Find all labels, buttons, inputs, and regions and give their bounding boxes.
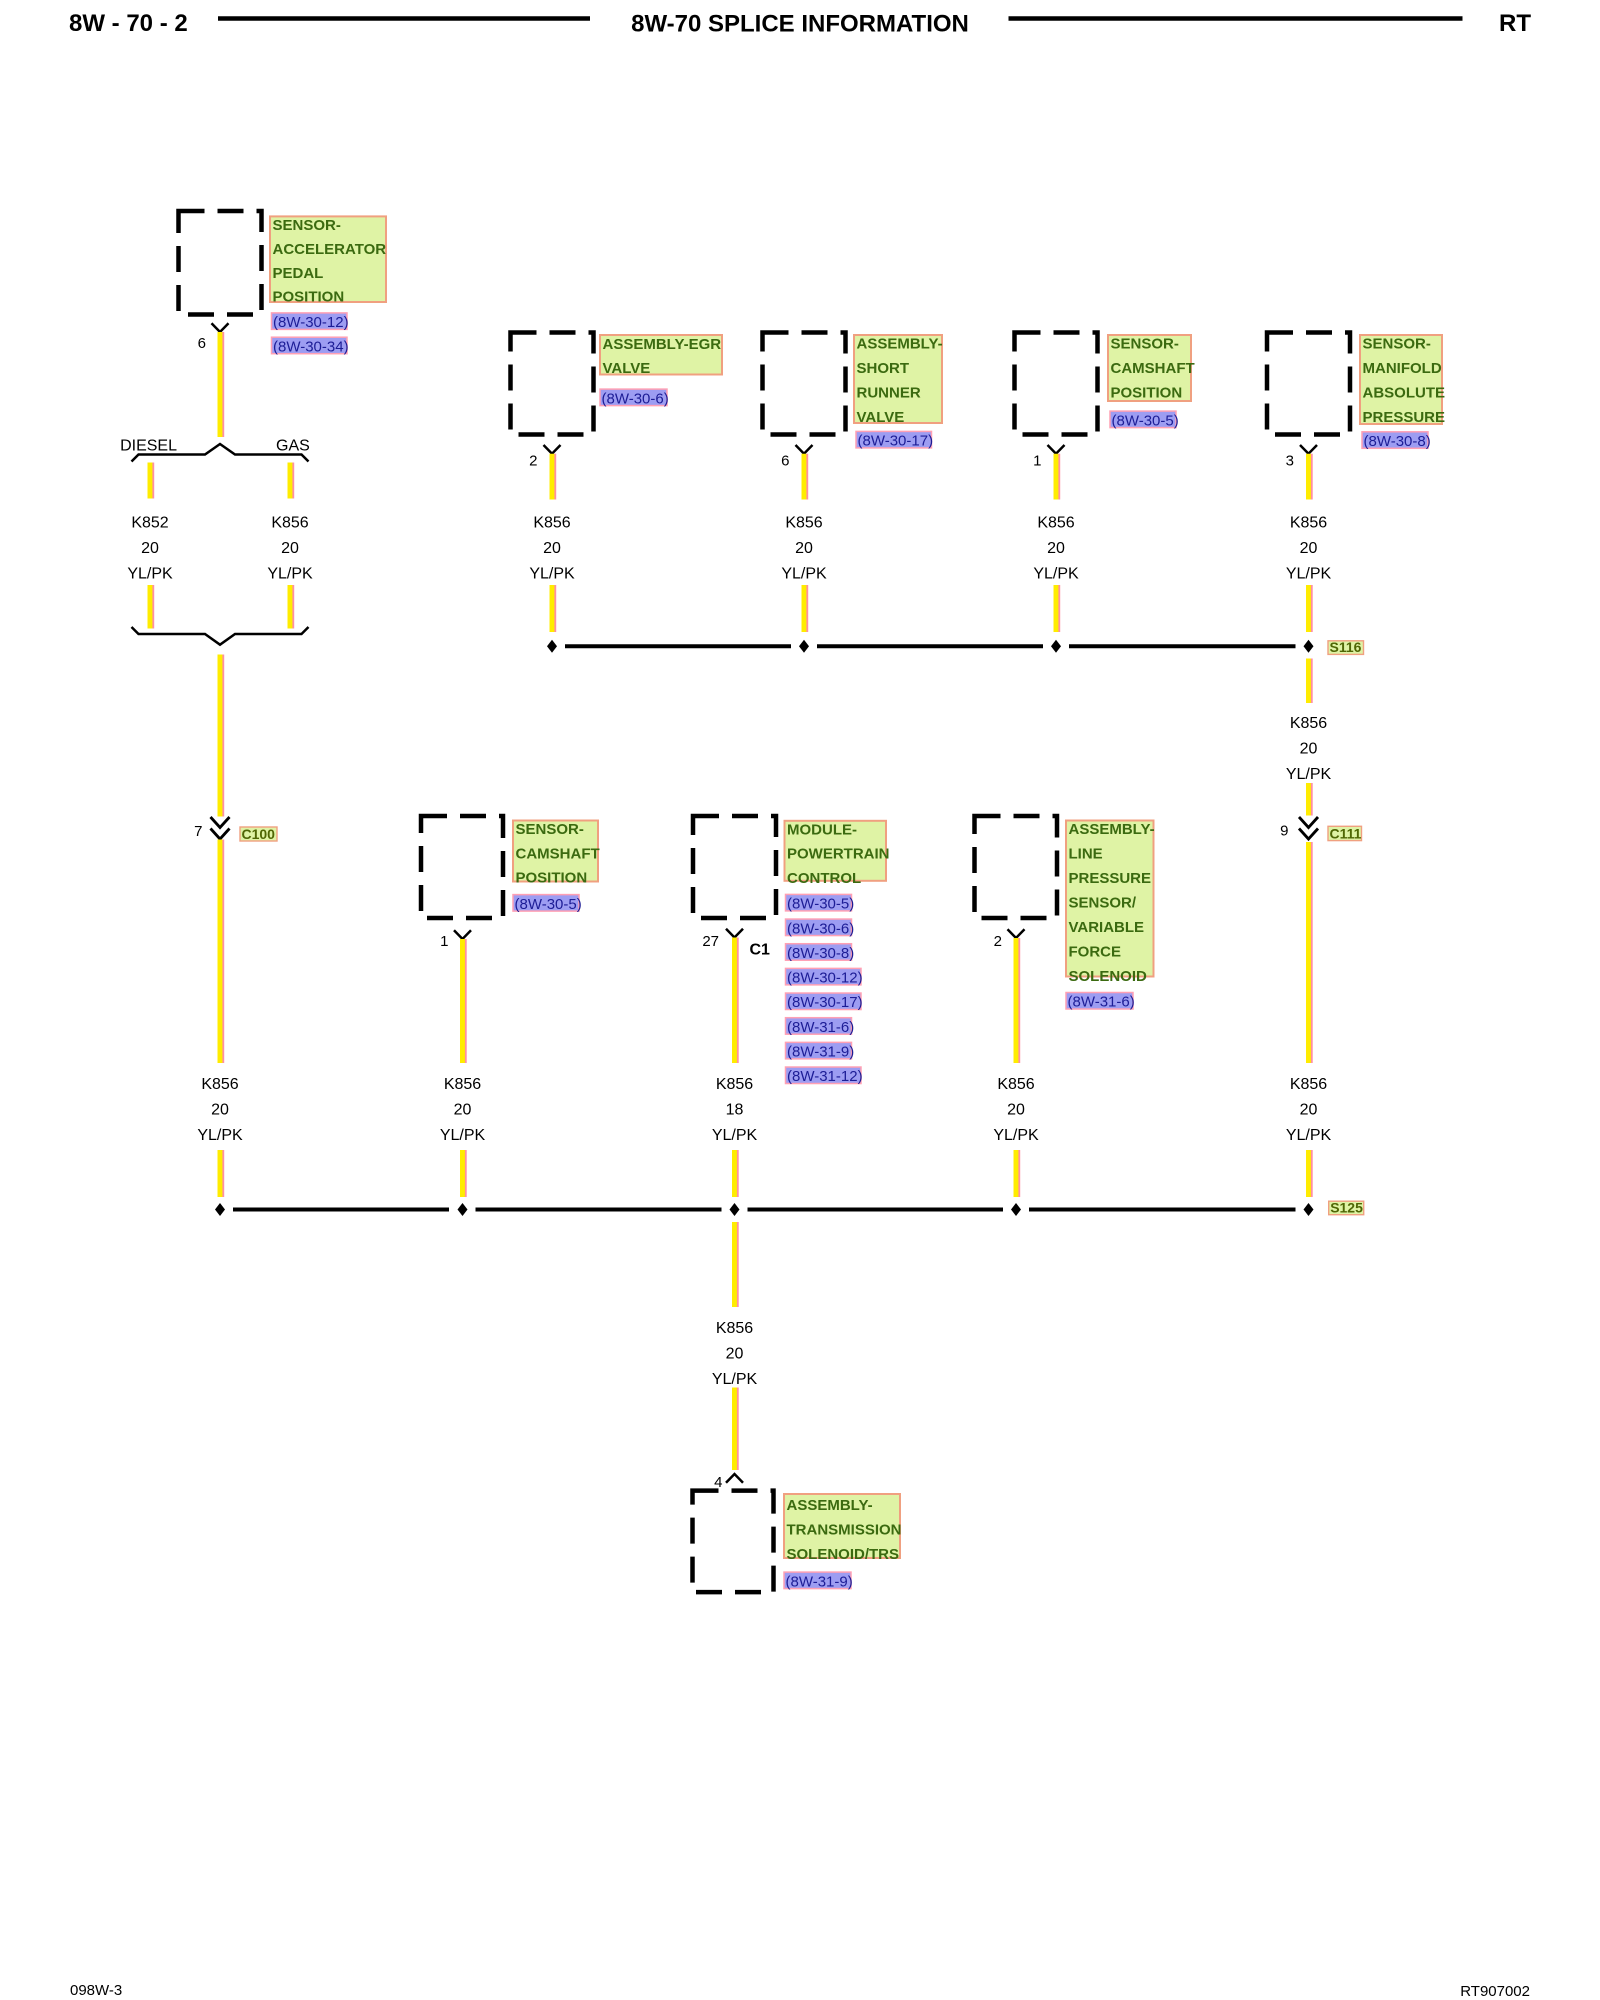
- svg-text:ASSEMBLY-: ASSEMBLY-: [857, 336, 943, 353]
- header rule left: [218, 16, 590, 21]
- wire label K856 20 YL/PK col1: [197, 1076, 243, 1144]
- wire label K856 18 YL/PK colC: [712, 1076, 758, 1144]
- wire label K856 20 YL/PK colB: [440, 1076, 486, 1144]
- svg-text:(8W-30-6): (8W-30-6): [787, 920, 854, 937]
- label assembly transmission solenoid TRS: [784, 1494, 902, 1563]
- svg-text:YL/PK: YL/PK: [197, 1127, 243, 1144]
- svg-text:20: 20: [281, 540, 299, 557]
- label assembly line pressure sensor VFS: [1066, 821, 1155, 985]
- svg-text:K856: K856: [271, 515, 308, 532]
- wire label K856 20 YL/PK sensor manifold absolute pressure: [1286, 515, 1332, 583]
- svg-text:S116: S116: [1330, 639, 1362, 655]
- pin 2 vfs: [994, 933, 1002, 950]
- reference (8W-31-12) pcm: [786, 1067, 863, 1085]
- svg-text:20: 20: [1300, 1102, 1318, 1119]
- svg-text:K856: K856: [1290, 1076, 1327, 1093]
- reference (8W-31-9) pcm: [786, 1042, 855, 1060]
- wire K856 below C100: [220, 840, 223, 1064]
- header title: [631, 11, 969, 38]
- svg-text:(8W-31-6): (8W-31-6): [787, 1019, 854, 1036]
- footer drawing code: [1460, 1983, 1530, 2000]
- pin 6: [198, 335, 206, 352]
- wire K856 from camshaft sensor mid: [463, 939, 466, 1063]
- bus line splice S116: [565, 644, 1296, 648]
- reference 8W-31-9: [784, 1572, 853, 1590]
- reference (8W-30-17) assembly short runner valve: [856, 431, 933, 449]
- wire label K852 20 YL/PK diesel: [127, 515, 173, 583]
- junction S116 sensor manifold absolute pressure: [1304, 640, 1314, 653]
- wire K856 from sensor camshaft position top: [1056, 454, 1059, 500]
- svg-text:1: 1: [440, 933, 448, 950]
- svg-text:GAS: GAS: [276, 438, 310, 455]
- svg-text:(8W-30-12): (8W-30-12): [273, 314, 349, 331]
- svg-text:7: 7: [194, 823, 202, 840]
- svg-text:POSITION: POSITION: [1111, 385, 1183, 402]
- svg-text:K856: K856: [1290, 515, 1327, 532]
- wire K856 to splice S125 right col: [1309, 1150, 1312, 1197]
- svg-text:SOLENOID: SOLENOID: [1069, 968, 1148, 985]
- svg-text:(8W-30-12): (8W-30-12): [787, 970, 863, 987]
- svg-text:20: 20: [141, 540, 159, 557]
- wire K856 from pcm: [735, 938, 738, 1064]
- svg-text:YL/PK: YL/PK: [529, 566, 575, 583]
- header page number: [69, 10, 188, 37]
- wire K852/K856 from accelerator pedal sensor: [220, 332, 223, 437]
- svg-text:LINE: LINE: [1069, 846, 1103, 863]
- svg-text:SENSOR-: SENSOR-: [1111, 336, 1179, 353]
- wire diesel branch: [150, 463, 153, 499]
- wire K856 below S116: [1309, 659, 1312, 704]
- junction S125 right col: [1304, 1203, 1314, 1216]
- wire K856 to C100: [220, 655, 223, 817]
- pin symbol transmission solenoid: [726, 1474, 743, 1483]
- svg-text:POWERTRAIN: POWERTRAIN: [787, 846, 890, 863]
- svg-text:PRESSURE: PRESSURE: [1363, 409, 1446, 426]
- splice label S125: [1329, 1200, 1364, 1216]
- svg-text:POSITION: POSITION: [273, 289, 345, 306]
- svg-text:(8W-31-12): (8W-31-12): [787, 1068, 863, 1085]
- reference (8W-31-6) pcm: [786, 1018, 855, 1036]
- wire K856 below S125: [735, 1222, 738, 1307]
- svg-text:K856: K856: [201, 1076, 238, 1093]
- pin 7: [194, 823, 202, 840]
- svg-text:VALVE: VALVE: [857, 409, 905, 426]
- pin 2 assembly EGR valve: [529, 452, 537, 469]
- reference (8W-30-8) pcm: [786, 944, 855, 962]
- svg-text:PEDAL: PEDAL: [273, 265, 324, 282]
- wire K856 to transmission solenoid: [735, 1388, 738, 1471]
- svg-text:20: 20: [1007, 1102, 1025, 1119]
- svg-text:K856: K856: [997, 1076, 1034, 1093]
- svg-text:TRANSMISSION: TRANSMISSION: [787, 1522, 902, 1539]
- svg-text:YL/PK: YL/PK: [1286, 766, 1332, 783]
- wire label K856 20 YL/PK colD: [993, 1076, 1039, 1144]
- svg-text:VALVE: VALVE: [603, 360, 651, 377]
- svg-text:(8W-30-34): (8W-30-34): [273, 338, 349, 355]
- svg-text:YL/PK: YL/PK: [1286, 566, 1332, 583]
- svg-text:K856: K856: [716, 1076, 753, 1093]
- svg-text:MODULE-: MODULE-: [787, 821, 857, 838]
- svg-text:MANIFOLD: MANIFOLD: [1363, 360, 1442, 377]
- wire label K856 20 YL/PK sensor camshaft position top: [1033, 515, 1079, 583]
- svg-text:3: 3: [1286, 452, 1294, 469]
- svg-text:(8W-30-17): (8W-30-17): [787, 994, 863, 1011]
- svg-text:20: 20: [211, 1102, 229, 1119]
- svg-text:RT: RT: [1499, 10, 1531, 37]
- svg-text:K852: K852: [131, 515, 168, 532]
- wire K856 to S125 colB: [463, 1150, 466, 1197]
- svg-text:S125: S125: [1330, 1200, 1363, 1216]
- svg-text:VARIABLE: VARIABLE: [1069, 919, 1145, 936]
- svg-text:K856: K856: [444, 1076, 481, 1093]
- svg-text:FORCE: FORCE: [1069, 943, 1122, 960]
- wire label K856 20 YL/PK bottom: [712, 1320, 758, 1388]
- connector label C1: [750, 942, 771, 959]
- wire label K856 20 YL/PK assembly EGR valve: [529, 515, 575, 583]
- wire K856 lower assembly short runner valve: [804, 585, 807, 632]
- svg-text:(8W-31-6): (8W-31-6): [1068, 994, 1135, 1011]
- svg-text:YL/PK: YL/PK: [712, 1371, 758, 1388]
- reference 8W-31-6 vfs: [1066, 993, 1135, 1011]
- pin 27: [702, 933, 719, 950]
- connector - sensor camshaft position mid: [421, 816, 503, 918]
- svg-text:20: 20: [1300, 540, 1318, 557]
- pin 1 sensor camshaft position top: [1033, 452, 1041, 469]
- svg-text:(8W-31-9): (8W-31-9): [786, 1573, 853, 1590]
- pin 1 camshaft mid: [440, 933, 448, 950]
- svg-text:SENSOR-: SENSOR-: [516, 821, 584, 838]
- svg-text:20: 20: [795, 540, 813, 557]
- wire K856 lower assembly EGR valve: [552, 585, 555, 632]
- svg-text:6: 6: [198, 335, 206, 352]
- svg-text:2: 2: [994, 933, 1002, 950]
- svg-text:CAMSHAFT: CAMSHAFT: [1111, 360, 1195, 377]
- wire K856 below C111: [1309, 842, 1312, 1063]
- label GAS: [276, 438, 310, 455]
- svg-text:C100: C100: [242, 826, 276, 842]
- svg-text:(8W-30-5): (8W-30-5): [515, 896, 582, 913]
- svg-text:18: 18: [726, 1102, 744, 1119]
- label sensor accelerator pedal position: [270, 216, 386, 305]
- wire K856 above C111: [1309, 783, 1312, 816]
- inline connector C111 symbol: [1299, 817, 1318, 839]
- svg-text:SENSOR-: SENSOR-: [1363, 336, 1431, 353]
- connector - assembly EGR valve: [511, 333, 594, 435]
- connector - sensor manifold absolute pressure: [1267, 333, 1350, 435]
- pin symbol sensor camshaft position top: [1048, 445, 1065, 454]
- junction S116 sensor camshaft position top: [1051, 640, 1061, 653]
- pin 9: [1280, 823, 1288, 840]
- svg-text:20: 20: [1300, 741, 1318, 758]
- connector - assembly transmission solenoid/TRS: [693, 1491, 774, 1593]
- bus line splice S125: [233, 1208, 1296, 1212]
- svg-text:C1: C1: [750, 942, 771, 959]
- svg-text:(8W-30-6): (8W-30-6): [602, 390, 669, 407]
- label assembly EGR valve: [600, 335, 722, 377]
- svg-text:ASSEMBLY-EGR: ASSEMBLY-EGR: [603, 336, 722, 353]
- svg-text:(8W-30-5): (8W-30-5): [1112, 412, 1179, 429]
- label DIESEL: [120, 438, 177, 455]
- wire label K856 20 YL/PK gas: [267, 515, 313, 583]
- svg-text:27: 27: [702, 933, 719, 950]
- footer sheet number: [70, 1982, 122, 1999]
- reference (8W-30-8) sensor manifold absolute pressure: [1362, 432, 1431, 450]
- svg-text:ABSOLUTE: ABSOLUTE: [1363, 385, 1446, 402]
- svg-text:SHORT: SHORT: [857, 360, 910, 377]
- svg-text:8W - 70 - 2: 8W - 70 - 2: [69, 10, 188, 37]
- svg-text:K856: K856: [533, 515, 570, 532]
- wire K856 from sensor manifold absolute pressure: [1309, 454, 1312, 500]
- svg-text:(8W-31-9): (8W-31-9): [787, 1044, 854, 1061]
- split bracket diesel/gas: [132, 444, 309, 462]
- svg-text:ASSEMBLY-: ASSEMBLY-: [787, 1497, 873, 1514]
- pin symbol assembly short runner valve: [796, 445, 813, 454]
- svg-text:YL/PK: YL/PK: [712, 1127, 758, 1144]
- svg-text:CAMSHAFT: CAMSHAFT: [516, 845, 600, 862]
- svg-text:20: 20: [726, 1346, 744, 1363]
- wire K856 from assembly EGR valve: [552, 454, 555, 500]
- pin symbol camshaft mid: [454, 930, 471, 939]
- svg-text:K856: K856: [1037, 515, 1074, 532]
- junction S125 col1: [215, 1203, 225, 1216]
- svg-text:8W-70 SPLICE INFORMATION: 8W-70 SPLICE INFORMATION: [631, 11, 969, 38]
- connector label C100: [240, 826, 277, 842]
- label module powertrain control: [785, 821, 890, 887]
- svg-text:CONTROL: CONTROL: [787, 870, 861, 887]
- header vehicle code: [1499, 10, 1531, 37]
- reference (8W-30-17) pcm: [786, 993, 863, 1011]
- junction S125 colD: [1011, 1203, 1021, 1216]
- merge bracket: [132, 627, 309, 645]
- label assembly short runner valve: [854, 335, 943, 426]
- label sensor camshaft position top: [1108, 335, 1195, 402]
- reference (8W-30-6) pcm: [786, 919, 855, 937]
- svg-text:ASSEMBLY-: ASSEMBLY-: [1069, 821, 1155, 838]
- pin symbol sensor manifold absolute pressure: [1300, 445, 1317, 454]
- wire K856 to S125 colD: [1016, 1150, 1019, 1197]
- svg-text:SOLENOID/TRS: SOLENOID/TRS: [787, 1546, 900, 1563]
- svg-text:YL/PK: YL/PK: [1033, 566, 1079, 583]
- connector - assembly short runner valve: [763, 333, 846, 435]
- wire gas branch lower: [290, 585, 293, 629]
- svg-text:(8W-30-17): (8W-30-17): [858, 433, 934, 450]
- reference (8W-30-5) sensor camshaft position top: [1110, 411, 1179, 429]
- svg-text:ACCELERATOR: ACCELERATOR: [273, 241, 387, 258]
- junction S125 colB: [458, 1203, 468, 1216]
- junction S125 colC: [730, 1203, 740, 1216]
- svg-text:9: 9: [1280, 823, 1288, 840]
- svg-text:6: 6: [781, 452, 789, 469]
- splice label S116: [1328, 639, 1364, 655]
- label sensor camshaft position mid: [513, 821, 600, 887]
- junction S116 assembly EGR valve: [547, 640, 557, 653]
- connector - sensor accelerator pedal position: [179, 211, 262, 315]
- svg-text:098W-3: 098W-3: [70, 1982, 122, 1999]
- inline connector C100 symbol: [211, 817, 230, 839]
- svg-text:YL/PK: YL/PK: [781, 566, 827, 583]
- svg-text:YL/PK: YL/PK: [993, 1127, 1039, 1144]
- wire K856 to splice S125 col1: [220, 1150, 223, 1197]
- reference 8W-30-12: [272, 313, 349, 331]
- connector - assembly line pressure sensor VFS: [975, 816, 1058, 918]
- reference 8W-30-5 mid: [513, 895, 582, 913]
- svg-text:PRESSURE: PRESSURE: [1069, 870, 1152, 887]
- wire K856 from assembly short runner valve: [804, 454, 807, 500]
- svg-text:RT907002: RT907002: [1460, 1983, 1530, 2000]
- svg-text:YL/PK: YL/PK: [127, 566, 173, 583]
- svg-text:1: 1: [1033, 452, 1041, 469]
- junction S116 assembly short runner valve: [799, 640, 809, 653]
- svg-text:C111: C111: [1330, 826, 1362, 842]
- pin 3 sensor manifold absolute pressure: [1286, 452, 1294, 469]
- svg-text:DIESEL: DIESEL: [120, 438, 177, 455]
- svg-text:SENSOR/: SENSOR/: [1069, 894, 1137, 911]
- wire label K856 20 YL/PK right col lower: [1286, 1076, 1332, 1144]
- svg-text:RUNNER: RUNNER: [857, 385, 921, 402]
- svg-text:K856: K856: [785, 515, 822, 532]
- pin 4: [714, 1474, 722, 1491]
- wire label K856 20 YL/PK assembly short runner valve: [781, 515, 827, 583]
- pin symbol pcm: [726, 929, 743, 938]
- wire K856 lower sensor manifold absolute pressure: [1309, 585, 1312, 632]
- wire diesel branch lower: [150, 585, 153, 629]
- label sensor manifold absolute pressure: [1360, 335, 1445, 426]
- wire label K856 20 YL/PK right col: [1286, 715, 1332, 783]
- svg-text:20: 20: [1047, 540, 1065, 557]
- svg-text:20: 20: [543, 540, 561, 557]
- reference (8W-30-12) pcm: [786, 968, 863, 986]
- connector - module powertrain control: [693, 816, 776, 918]
- reference (8W-30-5) pcm: [786, 894, 855, 912]
- wire gas branch: [290, 463, 293, 499]
- connector - sensor camshaft position top: [1015, 333, 1098, 435]
- pin symbol col1: [212, 323, 229, 332]
- svg-text:20: 20: [454, 1102, 472, 1119]
- svg-text:(8W-30-8): (8W-30-8): [787, 945, 854, 962]
- svg-text:2: 2: [529, 452, 537, 469]
- reference (8W-30-6) assembly EGR valve: [600, 389, 669, 407]
- svg-text:(8W-30-8): (8W-30-8): [1364, 433, 1431, 450]
- svg-text:POSITION: POSITION: [516, 870, 588, 887]
- header rule right: [1009, 16, 1463, 21]
- svg-text:YL/PK: YL/PK: [267, 566, 313, 583]
- svg-text:(8W-30-5): (8W-30-5): [787, 896, 854, 913]
- svg-text:K856: K856: [1290, 715, 1327, 732]
- pin 6 assembly short runner valve: [781, 452, 789, 469]
- svg-text:SENSOR-: SENSOR-: [273, 217, 341, 234]
- reference 8W-30-34: [272, 337, 349, 355]
- pin symbol vfs: [1008, 929, 1025, 938]
- connector label C111: [1328, 826, 1362, 842]
- wire K856 from vfs: [1016, 938, 1019, 1063]
- wire K856 lower sensor camshaft position top: [1056, 585, 1059, 632]
- svg-text:K856: K856: [716, 1320, 753, 1337]
- svg-text:YL/PK: YL/PK: [1286, 1127, 1332, 1144]
- pin symbol assembly EGR valve: [544, 445, 561, 454]
- svg-text:YL/PK: YL/PK: [440, 1127, 486, 1144]
- wire K856 to S125 colC: [735, 1150, 738, 1197]
